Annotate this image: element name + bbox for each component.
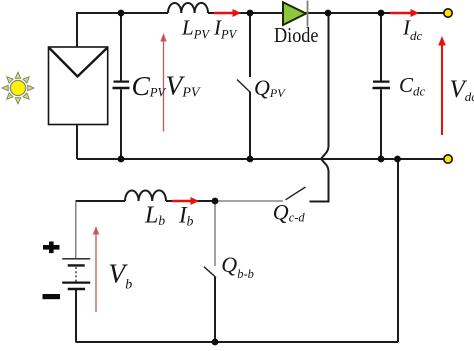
svg-text:LPV: LPV: [181, 15, 210, 41]
svg-text:Qb-b: Qb-b: [221, 252, 254, 281]
svg-text:Ib: Ib: [178, 203, 194, 229]
svg-text:Idc: Idc: [402, 16, 423, 43]
svg-text:CPV: CPV: [132, 70, 167, 101]
svg-text:QPV: QPV: [254, 75, 286, 100]
svg-text:Lb: Lb: [144, 203, 165, 229]
svg-text:IPV: IPV: [213, 15, 238, 41]
svg-text:Vb: Vb: [108, 258, 132, 293]
svg-text:Vdc: Vdc: [450, 76, 474, 104]
svg-text:Qc-d: Qc-d: [273, 200, 306, 225]
svg-text:Cdc: Cdc: [399, 73, 426, 98]
svg-text:Diode: Diode: [274, 23, 319, 47]
svg-text:VPV: VPV: [166, 70, 201, 101]
